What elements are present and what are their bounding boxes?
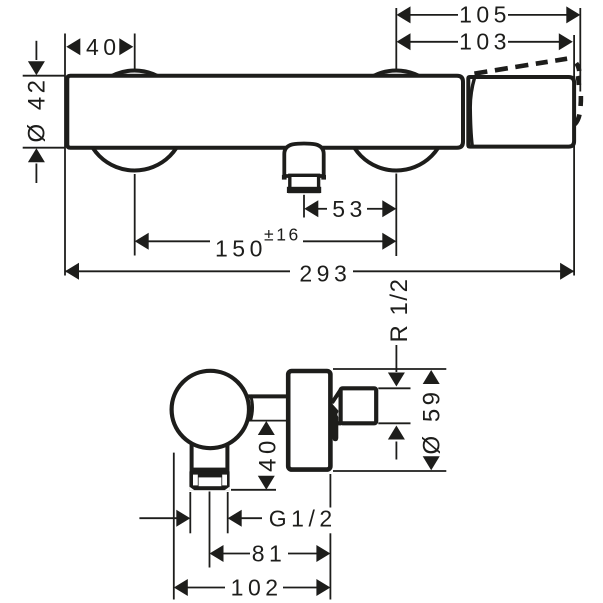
- dim diameter 59: [418, 370, 445, 470]
- dim 105 (top right): [397, 1, 581, 27]
- extension lines diameter 59: [333, 369, 446, 471]
- outlet center line: [303, 195, 305, 218]
- dim 81: [210, 541, 331, 567]
- extension line wall face: [329, 474, 331, 600]
- grip knob circle (side): [172, 371, 249, 448]
- svg-text:Ø 59: Ø 59: [418, 388, 445, 454]
- svg-text:102: 102: [231, 575, 283, 601]
- svg-text:40: 40: [86, 34, 121, 60]
- dashed handle (raised position): [474, 59, 581, 125]
- svg-text:Ø 42: Ø 42: [23, 76, 50, 142]
- svg-text:103: 103: [459, 28, 511, 54]
- extension lines G1/2: [190, 492, 227, 533]
- outlet fitting (top view): [282, 144, 326, 194]
- extension line left body edge: [64, 34, 66, 276]
- spout nut (side): [189, 471, 229, 490]
- handle: [468, 77, 574, 147]
- dim 102: [174, 575, 331, 601]
- dim 40 (top left): [66, 34, 133, 60]
- wall escutcheon (side): [288, 371, 330, 470]
- dim G1/2: [139, 506, 336, 532]
- svg-text:G1/2: G1/2: [269, 506, 337, 532]
- dim 40 (side): [231, 421, 281, 490]
- svg-text:105: 105: [459, 1, 511, 27]
- svg-text:81: 81: [252, 541, 287, 567]
- svg-text:53: 53: [332, 196, 367, 222]
- svg-text:R 1/2: R 1/2: [386, 278, 413, 343]
- extension line handle right: [573, 35, 575, 276]
- S-union cone: [332, 389, 342, 403]
- handle grip taper line: [470, 78, 474, 147]
- dim 103: [397, 28, 573, 54]
- dim R1/2: [386, 278, 413, 460]
- svg-text:±16: ±16: [264, 224, 301, 244]
- extension line grip front: [173, 453, 175, 600]
- svg-text:150: 150: [215, 235, 267, 261]
- left escutcheon circle: [85, 71, 185, 171]
- svg-text:293: 293: [299, 260, 351, 286]
- body bar: [67, 76, 463, 148]
- svg-text:40: 40: [254, 436, 281, 472]
- S-union stub: [332, 404, 343, 441]
- right escutcheon circle: [346, 71, 446, 171]
- center line right circle: [395, 8, 397, 256]
- supply arm bottom line: [248, 420, 288, 422]
- dim 293: [65, 260, 574, 286]
- grip collar arc: [250, 395, 252, 421]
- extension line outlet center (side): [209, 492, 211, 568]
- spout block (side): [192, 430, 228, 470]
- union nut (side): [341, 388, 377, 423]
- dim diameter 42 (left): [23, 41, 65, 183]
- dim 150 +-16: [135, 224, 397, 261]
- supply arm top line: [243, 394, 291, 398]
- center line left circle: [134, 34, 136, 256]
- extension lines R1/2: [378, 388, 410, 423]
- dim 53: [304, 196, 396, 222]
- extension line dashed-handle tip: [579, 8, 581, 92]
